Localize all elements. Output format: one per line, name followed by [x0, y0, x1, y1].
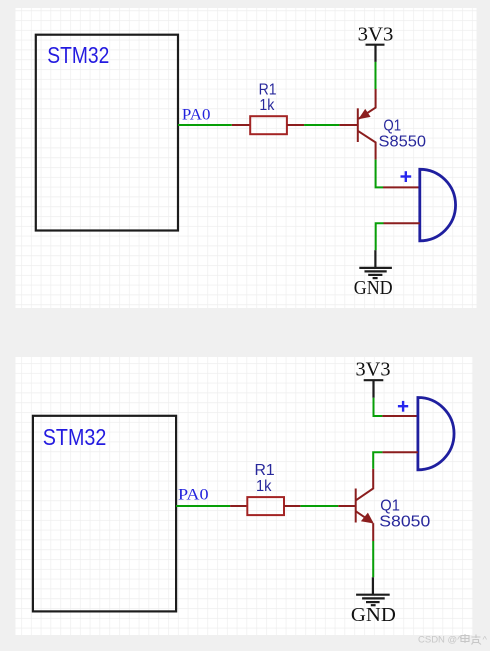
wire R1 to Q1 base (bottom)	[300, 505, 338, 507]
svg-text:R1: R1	[259, 82, 277, 99]
wire buzzer to Q1 collector (bottom)	[373, 452, 382, 468]
buzzer pin - (bottom)	[382, 451, 418, 453]
ground GND symbol (bottom)	[356, 577, 390, 605]
ground GND symbol (top)	[359, 250, 392, 278]
schematic sheet 2 background	[16, 357, 474, 635]
transistor Q1 S8550 PNP (top)	[358, 89, 376, 160]
buzzer pin + (bottom)	[382, 415, 418, 417]
wire R1 to Q1 base (top)	[304, 124, 339, 126]
buzzer LS1 (bottom)	[418, 398, 454, 470]
transistor Q1 S8050 NPN (bottom)	[356, 469, 374, 541]
transistor Q1 base pin (bottom)	[338, 505, 355, 507]
resistor R1 pin 1 (top)	[232, 124, 250, 126]
wire Q1 collector to buzzer (top)	[376, 160, 383, 188]
wire Q1 emitter to GND (bottom)	[372, 541, 374, 577]
svg-text:PA0: PA0	[178, 486, 209, 503]
svg-text:1k: 1k	[256, 478, 272, 495]
resistor R1 pin 2 (bottom)	[284, 505, 300, 507]
power symbol 3V3 (top)	[366, 45, 385, 62]
wire PA0 to R1 (bottom)	[176, 505, 230, 507]
wire PA0 to R1 (top)	[178, 124, 232, 126]
svg-text:Q1: Q1	[383, 118, 401, 135]
resistor R1 (bottom)	[247, 497, 284, 515]
svg-text:3V3: 3V3	[358, 24, 394, 45]
watermark CSDN	[418, 634, 488, 646]
wire buzzer to GND (top)	[376, 223, 384, 250]
resistor R1 pin 1 (bottom)	[230, 505, 247, 507]
svg-text:GND: GND	[351, 605, 396, 626]
svg-text:S8550: S8550	[379, 134, 427, 151]
svg-text:S8050: S8050	[379, 514, 430, 531]
polarity label + (top)	[401, 171, 412, 182]
wire 3V3 to Q1 emitter (top)	[375, 62, 377, 89]
wire 3V3 to buzzer (bottom)	[374, 398, 383, 416]
svg-text:R1: R1	[255, 462, 275, 479]
svg-text:STM32: STM32	[47, 42, 109, 68]
resistor R1 pin 2 (top)	[287, 124, 304, 126]
buzzer pin + (top)	[383, 186, 420, 188]
svg-text:1k: 1k	[259, 97, 275, 114]
svg-text:3V3: 3V3	[356, 359, 391, 380]
buzzer LS1 (top)	[420, 169, 456, 241]
schematic sheet 1 background	[16, 8, 477, 308]
power symbol 3V3 (bottom)	[364, 380, 384, 398]
IC STM32 (top)	[36, 35, 178, 231]
svg-text:^: ^	[483, 635, 488, 646]
svg-text:STM32: STM32	[43, 424, 106, 450]
svg-text:GND: GND	[354, 278, 393, 299]
svg-text:Q1: Q1	[380, 498, 400, 515]
svg-text:PA0: PA0	[182, 107, 211, 124]
polarity label + (bottom)	[398, 401, 408, 412]
buzzer pin - (top)	[384, 222, 420, 224]
svg-text:CSDN @^: CSDN @^	[418, 635, 462, 646]
resistor R1 (top)	[250, 116, 287, 134]
transistor Q1 base pin (top)	[339, 124, 357, 126]
IC STM32 (bottom)	[33, 416, 176, 612]
